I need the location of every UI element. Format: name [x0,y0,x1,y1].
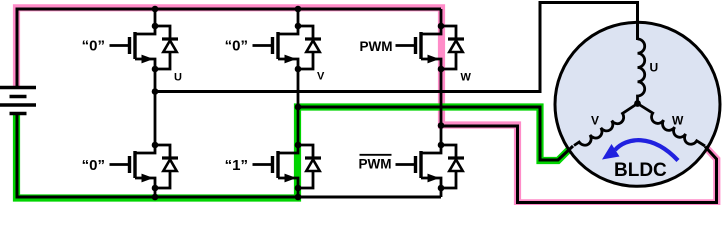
svg-text:V: V [317,71,325,83]
svg-text:“0”: “0” [225,38,248,55]
svg-text:PWM: PWM [359,157,392,172]
svg-text:U: U [650,61,659,75]
svg-text:BLDC: BLDC [614,160,667,181]
svg-text:V: V [591,114,599,128]
svg-text:“0”: “0” [82,157,105,174]
svg-text:W: W [461,72,472,84]
svg-text:W: W [672,114,684,128]
svg-text:PWM: PWM [360,39,393,54]
svg-text:“1”: “1” [225,157,248,174]
svg-text:“0”: “0” [82,38,105,55]
svg-text:U: U [174,72,182,84]
